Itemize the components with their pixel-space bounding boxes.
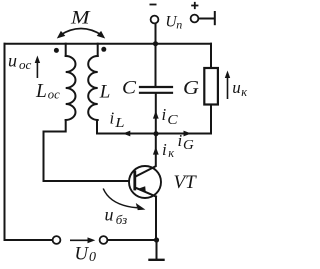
junction dot bottom xyxy=(154,237,159,242)
svg-text:L: L xyxy=(99,82,111,103)
svg-text:L: L xyxy=(114,115,125,130)
wire left border xyxy=(4,44,6,240)
transistor VT circle xyxy=(129,166,161,198)
svg-text:i: i xyxy=(110,109,115,128)
svg-text:u: u xyxy=(105,205,114,225)
svg-text:C: C xyxy=(167,112,178,127)
inductor L bottom lead xyxy=(96,120,98,134)
wire right of U0 terminal xyxy=(108,239,157,241)
capacitor C bottom plate xyxy=(140,92,172,94)
mutual inductance M arc with arrows xyxy=(57,29,105,39)
terminal minus circle xyxy=(151,16,159,24)
wire feedback down xyxy=(43,132,45,182)
svg-text:u: u xyxy=(8,50,17,70)
polarity dot L xyxy=(101,47,106,52)
wire bottom left to terminal xyxy=(5,239,53,241)
svg-text:G: G xyxy=(183,78,199,99)
wire collector bus to transistor xyxy=(155,134,157,166)
plus terminal end bar xyxy=(214,12,216,24)
inductor Loc bottom lead xyxy=(44,120,66,132)
arrow u_k xyxy=(225,71,230,100)
arrow i_C on wire xyxy=(153,111,159,119)
wire collector horizontal bus xyxy=(97,133,211,135)
minus sign xyxy=(150,4,157,6)
svg-text:ос: ос xyxy=(19,58,32,72)
transistor base bar xyxy=(133,172,136,189)
junction dot top xyxy=(153,41,158,46)
ground bar xyxy=(150,259,164,261)
junction dot collector bus xyxy=(153,131,158,136)
arrow i_G on wire (points right) xyxy=(184,131,192,137)
wire G branch top xyxy=(210,44,212,67)
terminal U0 right circle xyxy=(100,236,108,244)
svg-text:0: 0 xyxy=(89,250,96,264)
svg-text:бз: бз xyxy=(116,212,127,227)
transistor collector diagonal xyxy=(136,166,156,176)
svg-text:G: G xyxy=(183,137,194,152)
wire emitter to bottom xyxy=(155,197,157,241)
svg-text:L: L xyxy=(35,81,47,102)
plus sign xyxy=(191,2,198,9)
wire minus terminal to bus xyxy=(155,24,157,44)
wire plus terminal lead xyxy=(199,18,214,20)
svg-text:VT: VT xyxy=(174,172,198,193)
svg-text:ос: ос xyxy=(48,88,60,102)
arrow u_oc xyxy=(35,56,40,79)
inductor L top lead xyxy=(97,44,99,56)
svg-text:к: к xyxy=(241,85,247,99)
resistor G box xyxy=(204,68,218,105)
svg-text:i: i xyxy=(162,140,167,159)
polarity dot Loc xyxy=(54,48,59,53)
svg-text:к: к xyxy=(168,146,174,160)
arrow i_K on wire xyxy=(153,147,159,155)
curved arrow u_be xyxy=(103,189,145,211)
inductor L winding xyxy=(88,56,98,120)
svg-text:U: U xyxy=(75,244,90,265)
svg-text:u: u xyxy=(232,78,241,97)
svg-text:i: i xyxy=(162,105,167,124)
terminal plus circle xyxy=(191,15,199,23)
wire bus to capacitor top xyxy=(155,44,157,86)
wire ground stem xyxy=(156,240,158,260)
svg-text:C: C xyxy=(122,78,136,99)
wire base xyxy=(44,180,130,182)
wire G branch bottom xyxy=(210,105,212,134)
wire capacitor bottom to collector bus xyxy=(155,94,157,134)
transistor emitter diagonal xyxy=(137,188,156,196)
capacitor C top plate xyxy=(140,86,172,88)
svg-text:M: M xyxy=(70,8,91,29)
inductor Loc winding xyxy=(66,56,76,120)
inductor Loc top lead xyxy=(65,44,67,56)
terminal U0 left circle xyxy=(53,236,61,244)
arrow U0 between terminals xyxy=(70,237,95,243)
svg-text:п: п xyxy=(176,18,182,32)
transistor emitter arrowhead (points to base) xyxy=(137,186,146,192)
arrow i_L on wire (points left) xyxy=(123,131,131,137)
svg-text:i: i xyxy=(178,131,183,150)
wire top bus xyxy=(5,43,212,45)
